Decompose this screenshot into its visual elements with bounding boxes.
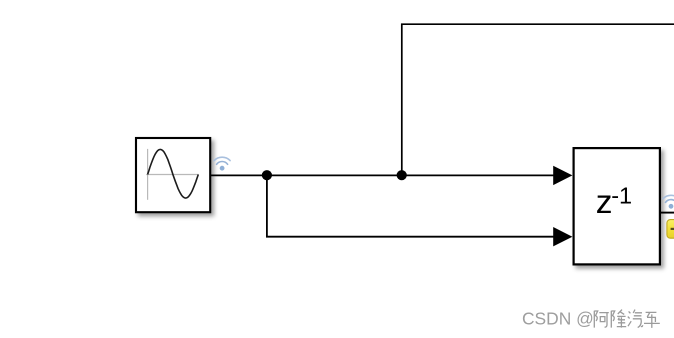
svg-text:CSDN @: CSDN @	[522, 308, 594, 328]
svg-text:-1: -1	[611, 183, 632, 209]
svg-text:z: z	[596, 184, 613, 221]
